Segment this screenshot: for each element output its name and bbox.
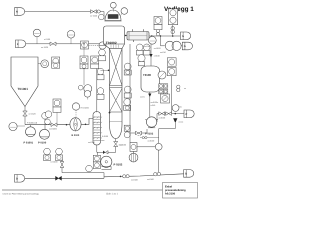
svg-text:E-0100: E-0100 bbox=[102, 135, 108, 138]
svg-text:xx-010: xx-010 bbox=[144, 45, 150, 48]
wire signal dashed bbox=[89, 45, 100, 47]
instrument circles before valves bbox=[45, 111, 52, 118]
svg-text:G: G bbox=[182, 35, 184, 38]
stack A bbox=[80, 56, 88, 64]
wire column bottom outlet bbox=[96, 145, 99, 153]
heat exchanger E-01002 bbox=[127, 32, 149, 41]
stack R3 bbox=[124, 99, 131, 106]
svg-text:xx-0100: xx-0100 bbox=[88, 141, 95, 144]
flag gas out bbox=[181, 32, 191, 40]
instrument LT left bbox=[9, 122, 17, 130]
node junction bbox=[66, 124, 68, 126]
stack TR1 bbox=[154, 17, 162, 25]
transition cone bbox=[104, 44, 125, 49]
stack below pumps 2 bbox=[56, 148, 63, 155]
drain valve bbox=[114, 142, 118, 147]
svg-text:P 01001: P 01001 bbox=[24, 142, 34, 145]
wire to flag bbox=[181, 45, 182, 47]
wire top feed bbox=[25, 11, 104, 13]
stack R2 bbox=[124, 86, 131, 93]
PIC stack above bbox=[53, 99, 61, 107]
bottom outlet bbox=[149, 92, 151, 117]
wire instrument stem bbox=[36, 37, 38, 44]
nozzles bbox=[132, 29, 134, 31]
svg-text:x-0100: x-0100 bbox=[154, 55, 160, 58]
svg-text:G: G bbox=[184, 45, 186, 48]
instrument circle bbox=[138, 55, 145, 62]
flag N2 inlet bbox=[15, 8, 25, 16]
valve bbox=[51, 123, 57, 127]
flag product bbox=[184, 110, 194, 118]
tank T01001 bbox=[11, 57, 38, 107]
instrument LT on tank bbox=[38, 63, 41, 65]
svg-text:x-0100: x-0100 bbox=[44, 38, 51, 41]
motor circle top bbox=[110, 2, 116, 8]
svg-text:D: D bbox=[16, 177, 18, 180]
stack L3 bbox=[97, 88, 104, 95]
wire stack A drop bbox=[83, 69, 85, 85]
svg-text:P: P bbox=[186, 113, 188, 116]
X brace 2 bbox=[110, 89, 123, 113]
svg-text:P 0100: P 0100 bbox=[38, 142, 47, 145]
wire to pump line bbox=[98, 147, 116, 153]
instrument on drain bbox=[155, 143, 162, 150]
svg-text:Side 1 av 1: Side 1 av 1 bbox=[106, 193, 119, 196]
damper valve circle bbox=[99, 42, 106, 49]
valve HV-1520 bbox=[91, 10, 97, 14]
wire condensate drop to T01003 bbox=[150, 42, 152, 66]
pump side stack bbox=[93, 155, 100, 162]
svg-text:xx-01005: xx-01005 bbox=[49, 128, 57, 131]
svg-text:T01002: T01002 bbox=[106, 41, 117, 45]
svg-text:B: B bbox=[185, 173, 187, 176]
svg-text:Utsnitt av P&ID-teikning prose: Utsnitt av P&ID-teikning prosessanlegg bbox=[3, 192, 40, 195]
wire relief to drain bbox=[159, 123, 176, 174]
wire suction header bbox=[25, 124, 70, 126]
wire stem from feed line bbox=[83, 44, 85, 56]
instrument on discharge bbox=[172, 105, 179, 112]
svg-text:T0100: T0100 bbox=[143, 73, 151, 77]
flag drain inlet bbox=[15, 175, 25, 183]
wire LV loop bbox=[62, 160, 104, 173]
branch to pump base bbox=[130, 129, 147, 133]
svg-text:xx-1520: xx-1520 bbox=[29, 113, 37, 116]
svg-text:T01001: T01001 bbox=[18, 87, 29, 91]
divider bbox=[110, 85, 123, 87]
side boxes bbox=[159, 84, 163, 88]
wire fan discharge bbox=[81, 119, 93, 125]
svg-text:xxxx: xxxx bbox=[101, 140, 105, 142]
divider 2 bbox=[110, 111, 123, 113]
wire stem bbox=[70, 38, 72, 44]
loop instruments bbox=[86, 165, 93, 172]
junction circles right bbox=[154, 173, 157, 176]
svg-text:A-xxx: A-xxx bbox=[179, 121, 184, 124]
svg-text:xx: xx bbox=[184, 88, 186, 90]
svg-text:xx-01: xx-01 bbox=[140, 96, 145, 99]
pump P01001A bbox=[26, 127, 36, 137]
stack RT1 bbox=[167, 58, 176, 66]
black valve bbox=[56, 176, 62, 180]
instrument FE above fan bbox=[72, 103, 79, 110]
vessel upper body bbox=[104, 26, 125, 44]
svg-text:xx-0100: xx-0100 bbox=[148, 139, 155, 142]
wire stem bbox=[56, 112, 58, 123]
node bbox=[85, 124, 87, 126]
rotary valve bbox=[23, 111, 27, 116]
side strainer bbox=[158, 71, 166, 79]
wire TR1 stem bbox=[157, 30, 159, 36]
svg-text:xx-0100: xx-0100 bbox=[131, 178, 138, 181]
relief drop bbox=[173, 118, 177, 123]
svg-text:FE-01005: FE-01005 bbox=[81, 107, 89, 110]
flag bottom out bbox=[184, 170, 194, 178]
check arrow bbox=[149, 54, 152, 57]
svg-text:xx-010: xx-010 bbox=[160, 51, 166, 54]
stack R1 bbox=[124, 63, 131, 70]
wire stem bbox=[17, 125, 25, 127]
wire down to header bbox=[24, 116, 26, 125]
under-exchanger instruments bbox=[136, 44, 143, 51]
stack below pumps 1 bbox=[44, 148, 51, 155]
wire riser to pump B bbox=[44, 112, 46, 129]
wire drop from stack bbox=[172, 25, 174, 36]
svg-text:xxx: xxx bbox=[120, 145, 123, 147]
bottom border bbox=[2, 189, 163, 191]
stack L2 bbox=[97, 68, 104, 75]
svg-text:xx-0102: xx-0102 bbox=[154, 47, 161, 50]
valve on feed bbox=[50, 42, 56, 46]
reducer circles bbox=[123, 175, 126, 178]
wire drop to pump bbox=[97, 152, 99, 156]
wire long drop bbox=[171, 76, 173, 114]
line fittings bbox=[140, 137, 159, 139]
motor M bbox=[133, 151, 135, 153]
wire column top riser bbox=[96, 69, 98, 113]
svg-text:xx-1520: xx-1520 bbox=[41, 46, 49, 49]
wire drop into dome bbox=[103, 12, 105, 20]
flag feed inlet bbox=[16, 40, 26, 48]
pump P-01002 bbox=[101, 156, 112, 167]
wire drain header bbox=[25, 177, 104, 179]
title block bbox=[163, 183, 198, 199]
instrument TI circle bbox=[67, 31, 75, 39]
node on wall bbox=[109, 112, 111, 114]
instrument FI circle bbox=[33, 29, 41, 37]
twin blower bbox=[165, 41, 174, 50]
svg-text:P-01001A/B: P-01001A/B bbox=[27, 121, 38, 124]
wire exchanger outlet gas bbox=[149, 35, 180, 37]
wire vessel to exchanger bbox=[125, 35, 128, 37]
svg-text:x-010: x-010 bbox=[151, 104, 156, 107]
svg-text:frå 2100: frå 2100 bbox=[165, 191, 176, 195]
svg-text:xx-0102: xx-0102 bbox=[159, 116, 166, 119]
small blind bbox=[177, 85, 180, 88]
instrument circle on gas line bbox=[148, 36, 156, 44]
instrument circle on riser bbox=[42, 113, 49, 120]
pump P01001B bbox=[40, 129, 50, 139]
recycle pipe right of column bbox=[129, 44, 131, 143]
X brace 1 bbox=[110, 49, 123, 86]
control valve box FV bbox=[81, 41, 89, 49]
instrument square M top bbox=[161, 94, 170, 103]
stack RT2 bbox=[167, 68, 176, 76]
branch to blower bbox=[161, 36, 165, 46]
valve on line bbox=[103, 151, 106, 154]
bottom right circle bbox=[124, 125, 130, 131]
svg-text:N: N bbox=[16, 11, 18, 14]
vessel top flange bbox=[105, 20, 122, 22]
column E-01002 bbox=[93, 112, 101, 146]
agitator dome bbox=[105, 10, 121, 20]
svg-text:P 0102: P 0102 bbox=[114, 163, 123, 167]
column body with X braces bbox=[110, 49, 123, 123]
stack L1 bbox=[99, 49, 106, 56]
wire tank outlet bbox=[24, 107, 26, 112]
wire feed header bbox=[26, 43, 104, 45]
instrument circle top right bbox=[121, 8, 128, 15]
wire bottom product line bbox=[104, 174, 184, 177]
flag vent 2 bbox=[182, 42, 192, 50]
svg-text:P 0103: P 0103 bbox=[145, 133, 154, 136]
svg-text:xx-0100x: xx-0100x bbox=[151, 101, 159, 104]
svg-text:LV-0100: LV-0100 bbox=[51, 161, 58, 164]
pump P01003 bbox=[146, 117, 156, 127]
discharge line to flag bbox=[157, 114, 184, 122]
vessel T01003 bbox=[141, 66, 160, 92]
valve bbox=[136, 131, 142, 135]
instrument circle top left of dome bbox=[99, 14, 105, 20]
wire bottom outlet bbox=[115, 139, 117, 142]
inline filter box bbox=[130, 143, 137, 152]
stack PI/PIC left isolated bbox=[52, 57, 60, 65]
wire riser pump join bbox=[103, 173, 105, 179]
svg-text:xx-x: xx-x bbox=[138, 135, 141, 137]
svg-text:xx-1520: xx-1520 bbox=[90, 14, 98, 17]
svg-text:xx-0100: xx-0100 bbox=[147, 178, 154, 181]
fan B-01001 bbox=[70, 118, 81, 131]
svg-text:B 0100: B 0100 bbox=[72, 134, 80, 137]
wire box outlet bbox=[137, 146, 159, 148]
U bottom bbox=[110, 122, 123, 139]
stack TR2 double bbox=[168, 9, 177, 25]
spectacle blind bbox=[171, 27, 175, 31]
stack B bbox=[91, 56, 99, 64]
control valve vertical bbox=[84, 85, 92, 93]
